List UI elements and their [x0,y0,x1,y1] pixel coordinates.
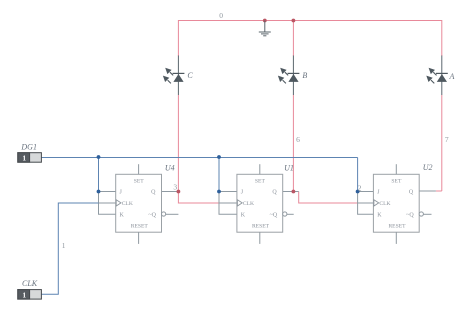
svg-text:Q: Q [272,190,277,196]
svg-text:CLK: CLK [243,201,254,207]
svg-text:1: 1 [22,154,26,163]
svg-text:SET: SET [134,178,145,184]
svg-text:K: K [241,212,246,218]
svg-text:RESET: RESET [252,223,270,229]
svg-text:Q: Q [409,190,414,196]
svg-text:RESET: RESET [131,223,149,229]
svg-text:~Q: ~Q [406,212,414,218]
svg-text:6: 6 [296,135,300,144]
svg-text:2: 2 [358,183,362,192]
svg-text:1: 1 [22,290,26,299]
svg-text:U1: U1 [284,164,294,173]
svg-text:1: 1 [62,241,66,250]
svg-text:SET: SET [391,178,402,184]
svg-text:DG1: DG1 [20,142,37,151]
svg-text:K: K [120,212,125,218]
svg-text:C: C [187,71,193,80]
svg-text:B: B [302,71,307,80]
svg-text:K: K [377,212,382,218]
svg-text:3: 3 [173,182,177,191]
svg-text:~Q: ~Q [148,212,156,218]
svg-text:SET: SET [255,178,266,184]
svg-text:~Q: ~Q [270,212,278,218]
svg-text:0: 0 [219,11,223,20]
svg-text:7: 7 [445,135,449,144]
svg-text:CLK: CLK [379,201,390,207]
svg-text:U2: U2 [423,163,433,172]
svg-text:A: A [449,72,455,81]
svg-text:Q: Q [151,190,156,196]
svg-text:CLK: CLK [22,279,38,288]
svg-text:RESET: RESET [388,223,406,229]
svg-text:U4: U4 [165,164,175,173]
svg-text:CLK: CLK [122,201,133,207]
